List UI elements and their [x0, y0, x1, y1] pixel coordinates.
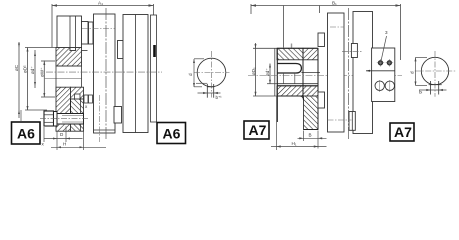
svg-text:H: H [63, 141, 66, 146]
A7 column bottom edge [304, 129, 319, 131]
big hole right [385, 81, 394, 90]
mating flange hatch above bolt [71, 99, 84, 114]
svg-text:A₄: A₄ [98, 1, 103, 6]
dimension B top overall width [251, 5, 401, 7]
dia dim circle [193, 59, 221, 94]
A7 hub hatch band1 right flange [303, 48, 318, 60]
A7 detail plate [372, 48, 395, 102]
flange lower hatch below bolt left [56, 124, 71, 131]
svg-text:d: d [188, 73, 193, 76]
flange lower hatch below bolt right [71, 124, 84, 131]
svg-text:B: B [309, 133, 312, 138]
elastomer tab bottom [114, 107, 122, 124]
bolt circle dash line upper [82, 28, 115, 30]
flange lower hatch right upper [71, 87, 84, 99]
svg-text:ød⁺: ød⁺ [265, 68, 270, 76]
elastomer tab top [118, 41, 124, 59]
A7 hub top edge [277, 47, 318, 49]
svg-text:A6: A6 [17, 126, 35, 142]
A7 bottom dims [271, 96, 327, 150]
main centerline A6 [46, 71, 162, 73]
A7 hub side tab bottom [318, 92, 325, 108]
mating face line [70, 99, 72, 114]
mating plane centerline [105, 8, 107, 140]
A7 hub side tab top [318, 33, 325, 47]
A7 slit ledge line [277, 96, 304, 100]
bolt thread lines [62, 115, 84, 117]
lower pin axis dash [99, 95, 101, 142]
A7 hub lower column hatch [304, 96, 319, 130]
ext hub slit bottom [253, 95, 277, 97]
A7 hub hatch band3 [277, 86, 318, 96]
bolt head facets [44, 114, 54, 116]
svg-text:øW⁺: øW⁺ [39, 67, 44, 77]
flange divider [69, 16, 71, 48]
keyway notch top of bore [70, 48, 76, 51]
A7 clamp slot rounded [277, 64, 301, 74]
ext line hub bottom [25, 109, 47, 111]
svg-text:b⁺ᵗ: b⁺ᵗ [216, 95, 222, 100]
dia dim circle A7 [415, 57, 447, 91]
boss left half [82, 22, 89, 45]
leader 3 [381, 36, 387, 61]
circle centerlines A7 [415, 70, 457, 72]
A7 bottom bolt axis dash [328, 119, 352, 121]
flange double edge right [80, 98, 82, 132]
svg-text:A6: A6 [163, 126, 181, 142]
A7 part divider [302, 48, 304, 96]
disc 3 [123, 15, 148, 133]
dimension A top overall width [52, 4, 154, 48]
A7 hub double line [277, 83, 318, 85]
boss right half [89, 22, 94, 44]
A7 disc A [328, 13, 345, 132]
hub upper hatch band [56, 48, 82, 67]
hole crosshairs [377, 59, 393, 66]
left dim line oD1 vertical [255, 43, 257, 96]
A7 bore face line [301, 72, 320, 74]
A6 label box left [12, 122, 41, 144]
boss bottom right half [89, 95, 93, 103]
A7 label box right [390, 123, 414, 141]
ext bore bottom [267, 83, 277, 85]
keyway slot A7 [429, 81, 442, 95]
A7 centerline [248, 75, 402, 77]
svg-text:A7: A7 [394, 124, 412, 140]
disc 2 [94, 14, 116, 133]
big hole centerlines [380, 80, 390, 92]
A7 hub right edge [317, 48, 319, 129]
pocket notch [75, 94, 81, 100]
hub bore lines [44, 51, 88, 97]
boss bottom left half [84, 95, 88, 103]
flange divider 2 [75, 16, 77, 48]
A7 tab axis dash [342, 51, 362, 53]
keyway slot [207, 84, 213, 98]
A7 hub hatch band1 left clamp [277, 48, 303, 60]
shaft circle [197, 58, 226, 87]
flange upper rect [57, 16, 82, 48]
A7 disc B [353, 12, 373, 134]
ext stub hub right [319, 6, 321, 14]
left dim line oD [27, 48, 29, 111]
svg-text:øD¹: øD¹ [23, 65, 28, 73]
bolt shaft [57, 114, 84, 125]
svg-text:øC: øC [14, 64, 19, 71]
A7 label box left [244, 121, 269, 139]
A7 mating centerline [348, 8, 350, 140]
circle centerlines [194, 72, 230, 74]
svg-text:B₁: B₁ [332, 1, 337, 6]
disc 3 divider [135, 15, 137, 133]
plate divider [366, 70, 395, 72]
shaft circle A7 [421, 57, 448, 84]
ext hub top [253, 47, 277, 49]
left dim line oA [18, 42, 20, 118]
A7 elastomer tab top [351, 44, 357, 58]
left dim line od [34, 50, 36, 88]
svg-text:3: 3 [385, 30, 388, 35]
hub lower hatch left part [56, 87, 71, 113]
left dim line od [269, 64, 271, 84]
bolt centerline [40, 118, 89, 120]
A7 hub outline left edge [276, 48, 278, 122]
svg-text:H₁: H₁ [292, 141, 297, 146]
bolt head [44, 111, 54, 126]
A7 bore band verticals [283, 73, 285, 84]
big hole left [375, 81, 384, 90]
bolt washer [54, 112, 58, 127]
ext screw line [283, 6, 285, 48]
left dim line ow [43, 61, 45, 98]
A7 elastomer tab bottom [349, 112, 355, 131]
small tick right of hub [82, 50, 88, 52]
right sliver [151, 15, 157, 122]
svg-text:A7: A7 [249, 122, 267, 138]
A6 label box right [157, 123, 186, 144]
bottom dims A6 [44, 127, 106, 151]
tab divider [351, 112, 353, 131]
svg-text:øD₁: øD₁ [251, 67, 256, 75]
leader to A6 box [20, 110, 22, 122]
svg-text:bₗ: bₗ [419, 90, 423, 95]
A7 bolt circle dash [330, 26, 345, 28]
disc2 inner bottom line [94, 129, 116, 131]
small hole left [378, 61, 391, 65]
ext line hub top [25, 47, 56, 49]
svg-text:d: d [410, 71, 415, 74]
right sliver dark segment [153, 45, 156, 57]
A7 screw axis stub [291, 44, 293, 49]
svg-text:ød⁺: ød⁺ [30, 66, 35, 74]
hole center dots [380, 62, 381, 63]
